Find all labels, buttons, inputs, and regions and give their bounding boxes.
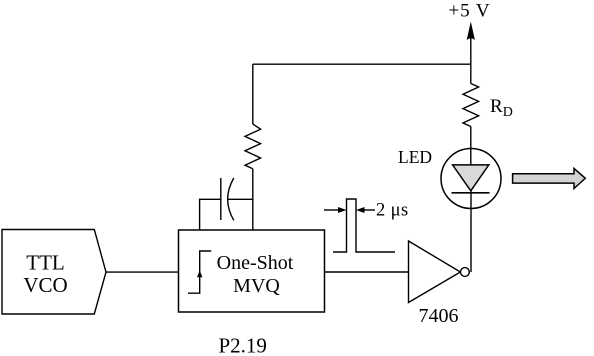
pulse waveform xyxy=(333,199,395,252)
pulse width dimension arrows xyxy=(324,207,375,213)
inverter 7406 U2 xyxy=(409,241,470,303)
wire: top rail corner down to timing resistor xyxy=(252,64,254,124)
wire: VCO output to one-shot input xyxy=(106,271,179,273)
svg-text:One-Shot: One-Shot xyxy=(217,252,294,274)
svg-text:MVQ: MVQ xyxy=(233,275,280,297)
wire: LED cathode down to inverter output node xyxy=(470,191,472,272)
edge-trigger symbol xyxy=(188,251,211,293)
light output arrow xyxy=(513,168,586,188)
+5 V supply arrow xyxy=(467,22,475,65)
wire: capacitor to timing resistor branch xyxy=(227,198,253,200)
svg-text:TTL: TTL xyxy=(26,251,64,275)
svg-text:7406: 7406 xyxy=(419,305,459,327)
wire: timing resistor down to one-shot top xyxy=(252,169,254,230)
svg-text:VCO: VCO xyxy=(23,273,67,297)
wire: stub from one-shot top to capacitor xyxy=(200,199,221,230)
wire: +5V rail down to resistor RD xyxy=(470,64,472,83)
svg-text:2 μs: 2 μs xyxy=(376,201,409,221)
wire: one-shot output to inverter input xyxy=(325,271,409,273)
resistor RD xyxy=(463,84,479,127)
svg-text:P2.19: P2.19 xyxy=(219,334,267,356)
svg-text:+5 V: +5 V xyxy=(449,1,491,22)
wire: top horizontal from timing resistor branch to +5V rail xyxy=(253,63,471,65)
resistor R (timing) xyxy=(245,124,261,169)
svg-text:RD: RD xyxy=(490,96,513,120)
capacitor C (timing) xyxy=(221,178,234,220)
one-shot MVQ block U1 xyxy=(179,230,325,312)
LED D1 xyxy=(441,149,501,209)
TTL VCO block xyxy=(2,230,106,315)
wire: RD to LED anode xyxy=(470,127,472,166)
svg-text:LED: LED xyxy=(398,147,432,167)
